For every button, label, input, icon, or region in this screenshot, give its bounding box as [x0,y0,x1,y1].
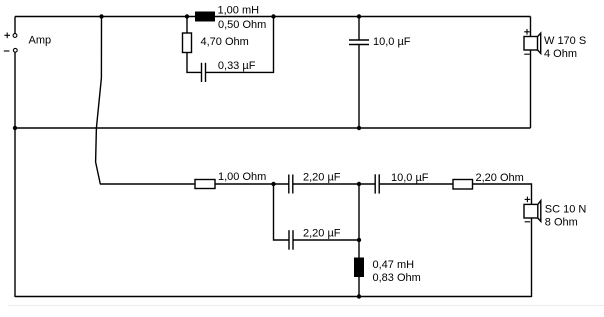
svg-text:4 Ohm: 4 Ohm [544,48,577,60]
wire C2 top lead [358,17,360,41]
node junction node B top [357,182,361,186]
wire woofer bottom lead [530,50,532,128]
speaker LS1 W 170 S [524,33,541,53]
inductor L1 1,00 mH [195,12,215,22]
wire amp minus lead / left vertical [14,52,16,297]
wire node B to C5 [359,183,375,185]
svg-text:SC 10 N: SC 10 N [545,204,587,216]
svg-text:0,47 mH: 0,47 mH [373,259,415,271]
inductor L2 0,47 mH shunt [354,258,364,278]
node junction node B lower [357,238,361,242]
svg-text:W 170 S: W 170 S [544,35,586,47]
node junction top tap [99,14,103,18]
speaker LS2 plus sign [525,197,531,203]
wire C2 bottom lead [358,45,360,129]
capacitor C3 2,20 uF upper [289,175,293,194]
speaker LS1 minus sign [524,53,530,55]
svg-text:2,20 Ohm: 2,20 Ohm [476,172,524,184]
wire R1 top lead [186,17,188,34]
wire R3 to tweeter [473,184,532,204]
wire tweeter bottom lead [531,218,533,297]
wire lower cap branch left [274,184,290,240]
capacitor C1 0,33 uF [202,63,206,82]
amp plus sign [4,33,10,39]
wire bottom rail (tweeter return) [15,296,532,298]
wire R2 to C3 [215,183,289,185]
wire top rail [15,16,531,18]
wire C3 right lead [293,183,359,185]
svg-text:10,0 µF: 10,0 µF [373,36,411,48]
svg-text:1,00 mH: 1,00 mH [218,4,260,16]
wire C5 to R3 [379,183,453,185]
wire C4 right lead [293,239,359,241]
wire tweeter branch (curved drop) [96,17,195,185]
svg-text:1,00 Ohm: 1,00 Ohm [218,171,266,183]
node junction mid rail left [13,126,17,130]
amp terminal - [13,48,17,52]
wire mid rail (woofer return) [15,127,531,129]
svg-text:8 Ohm: 8 Ohm [545,217,578,229]
node junction L2 bottom rail [357,294,361,298]
amp terminal + [13,34,17,38]
svg-text:4,70 Ohm: 4,70 Ohm [201,36,249,48]
resistor R1 4,70 Ohm [183,33,192,53]
capacitor C5 10,0 uF series [375,174,379,193]
wire woofer top lead [530,17,532,37]
node junction C2 bottom [357,126,361,130]
capacitor C2 10,0 uF shunt [349,40,369,45]
wire node B vertical [358,184,360,258]
node junction L1 right [271,14,275,18]
svg-text:2,20 µF: 2,20 µF [303,228,341,240]
speaker LS2 SC 10 N [524,201,541,222]
amp minus sign [4,50,10,52]
resistor R3 2,20 Ohm [453,180,473,190]
capacitor C4 2,20 uF lower [289,230,293,250]
wire amp plus lead [14,17,16,34]
svg-text:0,50 Ohm: 0,50 Ohm [218,19,266,31]
wire C1 right lead up to top rail [206,17,274,73]
node junction parallel caps left [271,182,275,186]
speaker LS1 plus sign [524,29,530,35]
svg-text:2,20 µF: 2,20 µF [303,172,341,184]
svg-text:0,83 Ohm: 0,83 Ohm [373,272,421,284]
svg-text:0,33 µF: 0,33 µF [218,60,256,72]
wire R1 bottom lead [187,53,202,73]
resistor R2 1,00 Ohm [195,180,215,189]
svg-text:Amp: Amp [29,35,52,47]
node junction L1 left [185,14,189,18]
faint screenshot edge line [8,305,604,307]
speaker LS2 minus sign [525,221,531,223]
wire L2 bottom lead [358,277,360,297]
svg-text:10,0 µF: 10,0 µF [391,172,429,184]
node junction C2 top [357,14,361,18]
